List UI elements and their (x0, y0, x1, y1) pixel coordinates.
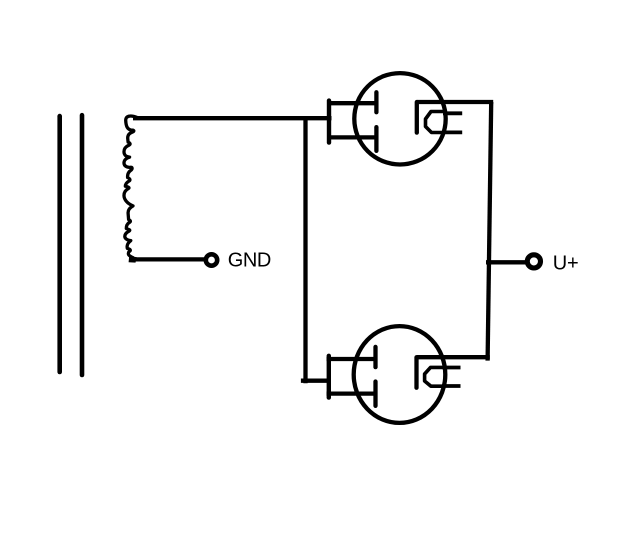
wire: into Q2 gate bracket (301, 379, 331, 383)
Q1 cathode top stub (443, 111, 462, 115)
wire: right vertical (Q1 plate to Q2 plate) (488, 102, 492, 361)
Q2 gate top arm (327, 357, 375, 361)
wire: winding bottom to GND terminal (132, 257, 205, 261)
svg-text:U+: U+ (553, 252, 579, 274)
Q1 plate vertical bar (415, 102, 419, 133)
Q2 channel bar top segment (373, 347, 377, 367)
winding L1 bottom joint blob (129, 256, 137, 263)
GND terminal ring (206, 254, 217, 265)
transistor Q1 envelope (top circle) (354, 73, 445, 164)
U+ terminal ring (527, 255, 540, 268)
Q2 gate bottom arm (327, 391, 375, 395)
Q1 channel bar top segment (374, 92, 378, 112)
winding L1 (hand-drawn squiggle) (124, 116, 137, 260)
Q1 cathode cup (426, 112, 445, 133)
Q2 cathode bottom stub (442, 384, 461, 388)
Q1 gate bottom arm (328, 135, 376, 139)
transformer core line 2 (80, 115, 85, 375)
Q1 channel bar bottom segment (374, 127, 378, 151)
Q2 cathode top stub (442, 366, 461, 370)
Q1 cathode bottom stub (443, 130, 462, 134)
Q1 gate connector vertical bar (327, 101, 331, 143)
Q2 channel bar bottom segment (373, 382, 377, 406)
transistor Q2 envelope (bottom circle) (354, 326, 446, 423)
transformer core line 1 (57, 116, 62, 372)
wire: left vertical from gate junction down to Q2 gate (303, 118, 307, 383)
wire: stub to U+ terminal (486, 260, 527, 264)
Q1 plate top lead (417, 100, 493, 104)
wire: winding top to Q1 gate (133, 116, 332, 120)
Q1 gate top arm (328, 101, 376, 105)
Q2 cathode cup (425, 367, 443, 386)
Q2 plate top lead (417, 355, 490, 359)
svg-text:GND: GND (228, 249, 271, 271)
Q2 gate connector vertical bar (327, 356, 331, 398)
Q2 plate vertical bar (414, 357, 418, 387)
